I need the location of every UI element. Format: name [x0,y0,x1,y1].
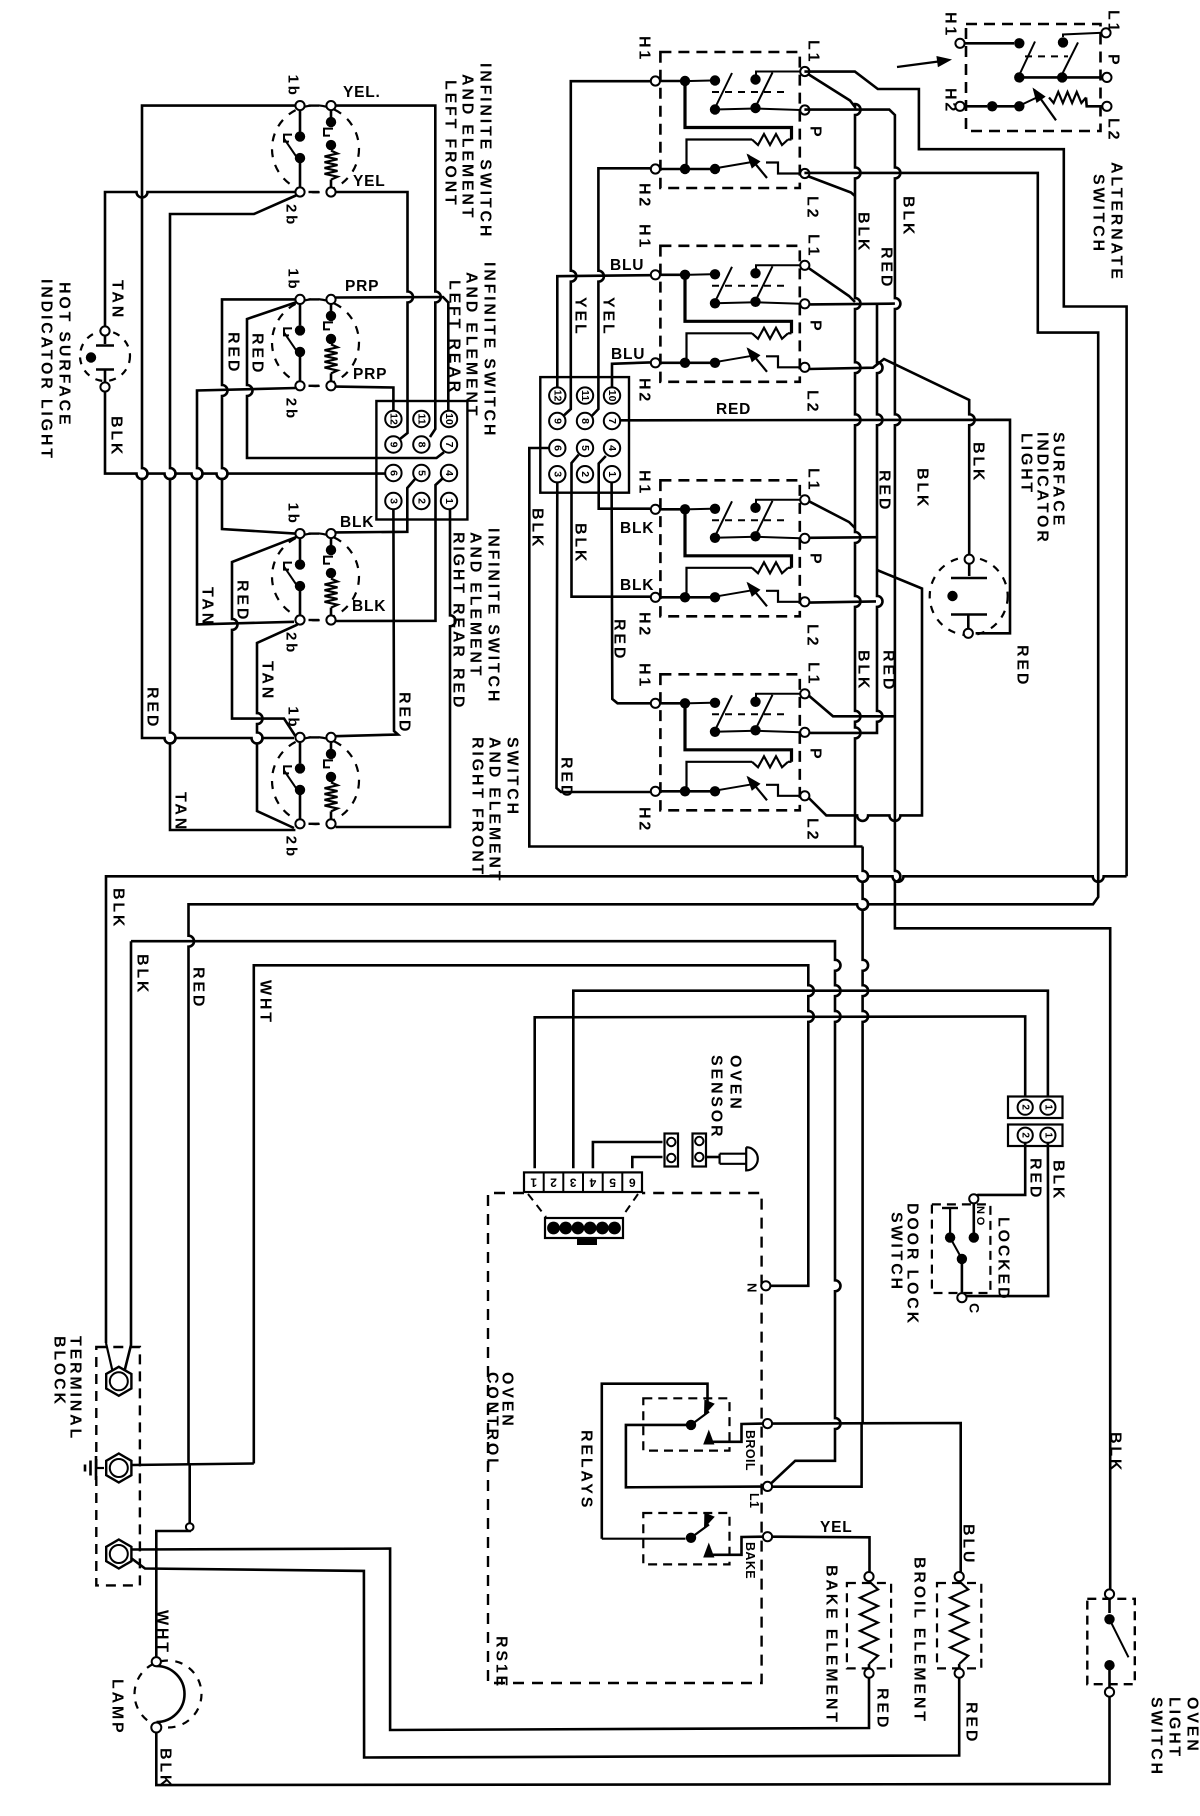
box 4 (right front element) terminal P [800,728,809,737]
door lock plug pin 1 (lower) [1040,1128,1055,1143]
wire oven sensor 3 to door lock plug pin 1 [573,991,1048,1168]
box 4 (right front element) terminal H1 [651,699,660,708]
bake element (dashed box) [847,1583,891,1668]
svg-text:L1: L1 [805,234,822,258]
wire LR-1b to connector pin 7 (RED) [247,302,444,458]
infinite switch left front left pole lead [299,110,302,131]
svg-text:TAN: TAN [109,280,126,320]
box 1 (left front element) contact dot [710,164,720,174]
svg-text:AND ELEMENT: AND ELEMENT [467,532,484,678]
wire oven sensor 1 to door lock plug pin 2 [535,1016,1025,1168]
alternate switch P internal lead [1019,76,1102,79]
box 2 (left rear element) blade coupling (dashed) [712,285,790,287]
svg-text:2: 2 [1020,1132,1031,1138]
wire hot surface light to connector pin 6 (BLK) [105,392,385,480]
surface indicator light dot [947,591,957,601]
broil element terminal [955,1669,964,1678]
ground symbol [96,1467,104,1469]
svg-text:BLK: BLK [134,954,151,995]
wire WHT neutral bus to oven control N [254,965,814,1463]
relay K1 blade arrow [704,1400,715,1416]
infinite switch right front terminal (top right) [326,733,335,742]
box 1 (left front element) pilot resistor [752,134,788,145]
svg-text:H1: H1 [942,12,959,38]
door lock switch C lead [961,1259,964,1293]
bake element terminal [864,1572,873,1581]
wire LF-2b to hot surface light (TAN) [105,192,295,326]
box 4 (right front element) contact dot [710,727,720,737]
wire P2 pin 6 (BLK) to bus [529,448,862,847]
oven sensor plug connector A [665,1134,679,1167]
relay K2 common dot [686,1533,696,1543]
connector P1 pin 9 [385,436,401,452]
infinite switch right rear contact dot [326,545,336,555]
svg-text:LIGHT: LIGHT [1018,433,1035,495]
wire box4 L1 to feed chain [809,696,895,717]
connector P1 (12-pin) outline [376,401,467,520]
box 1 (left front element) internal link [687,140,753,166]
infinite switch left front left pole lead [299,163,302,188]
box 4 (right front element) switch blade 2 [756,695,773,730]
svg-text:H1: H1 [636,470,653,496]
box 3 (right rear element) cycling arrow [747,582,761,597]
connector P1 pin 5 [413,465,429,481]
svg-text:8: 8 [579,418,591,424]
bake element lead [868,1664,871,1669]
svg-text:12: 12 [551,390,563,402]
surface indicator light electrode [951,577,987,579]
terminal block (dashed box) [96,1347,140,1585]
svg-text:BLU: BLU [611,346,645,363]
box 2 (left rear element) terminal P [800,299,809,308]
box 4 (right front element) internal link [788,761,792,763]
infinite switch right rear right pole lead [330,538,333,545]
box 2 (left rear element) terminal L2 [800,363,809,372]
box 3 (right rear element) L1 internal link [756,500,801,504]
box 4 (right front element) cycling blade [748,777,767,800]
infinite switch infinite switch left rear (dashed outline) [272,299,359,386]
svg-text:PRP: PRP [345,278,379,295]
infinite switch left front right pole lead [330,110,333,117]
infinite switch left rear right pole lead [330,373,333,381]
svg-text:BLK: BLK [110,888,127,929]
box 1 (left front element) terminal H2 [651,164,660,173]
alternate switch blade coupling (dashed) [1025,55,1068,57]
infinite switch right front thermal hook [324,760,333,767]
wire pilot chain to box3 P [809,536,877,539]
alternate switch contact dot [1058,37,1068,47]
box 4 (right front element) switch blade 1 [715,695,732,730]
wire lamp to oven light switch (BLK bottom bus) [156,1697,1109,1785]
svg-text:BLK: BLK [1050,1160,1067,1201]
alternate switch contact dot [1014,101,1024,111]
alternate switch blade 2 [1062,42,1078,74]
svg-text:BLU: BLU [960,1524,977,1565]
wire oven sensor 4 to sensor plug [593,1142,663,1168]
connector P2 (12-pin) outline [540,377,629,493]
terminal block lug 1 [106,1367,131,1396]
svg-text:TAN: TAN [172,792,189,832]
oven sensor plug pin [596,1222,609,1235]
alternate switch (dashed box) [966,24,1101,131]
wire LR pilot top to pin 10 (PRP) [336,297,449,410]
svg-text:INDICATOR: INDICATOR [1034,432,1051,545]
oven control (dashed box) [488,1193,762,1683]
door lock plug connector (upper) [1008,1097,1063,1119]
wire box1 L2 diagonal [809,177,855,197]
svg-text:P: P [807,126,824,139]
infinite switch right front right pole lead [330,811,333,819]
box 3 (right rear element) terminal H1 [651,505,660,514]
svg-text:L2: L2 [804,818,821,842]
svg-text:L1: L1 [1105,10,1122,34]
hot surface indicator light electrode [96,344,114,346]
infinite switch right rear left pole lead [299,591,302,616]
wire box2 L2 to surface indicator light (BLK) [809,359,975,555]
box 2 (left rear element) contact dot [750,297,760,307]
svg-text:YEL: YEL [572,297,589,337]
infinite switch left rear terminal (bottom right) [326,381,335,390]
infinite switch left front terminal (bottom right) [326,187,335,196]
svg-text:NO: NO [974,1206,986,1228]
door lock switch NO lead [972,1203,975,1233]
svg-text:DOOR LOCK: DOOR LOCK [904,1203,921,1326]
wire BLK bus to oven control L1 terminal [131,941,841,1483]
surface switch box 4 (right front element) (dashed box) [660,674,799,810]
svg-text:H2: H2 [636,612,653,638]
infinite switch infinite switch right front (dashed outline) [272,737,359,824]
surface switch box 2 (left rear element) (dashed box) [660,246,799,382]
pointer arrow to alternate switch [897,61,946,68]
sensor plug pin [695,1137,703,1145]
box 1 (left front element) internal link [788,138,792,140]
infinite switch right front contact dot [326,772,336,782]
svg-text:6: 6 [551,445,563,451]
alternate switch terminal P [1102,73,1111,82]
infinite switch right front thermal hook [284,766,292,773]
svg-text:RED: RED [716,401,751,418]
box 3 (right rear element) terminal H2 [651,593,660,602]
box 3 (right rear element) cycling blade [748,583,767,606]
svg-text:5: 5 [609,1176,616,1190]
svg-text:BLK: BLK [970,442,987,483]
svg-text:7: 7 [606,418,618,424]
infinite switch left rear left pole lead [299,304,302,325]
svg-text:1: 1 [443,498,455,504]
oven sensor plug pin [559,1222,572,1235]
wire LF-1b to RF-1b (RED) [142,106,295,744]
svg-text:SWITCH: SWITCH [888,1212,905,1292]
infinite switch right rear right pole lead [330,608,333,616]
svg-text:RIGHT REAR: RIGHT REAR [450,532,467,660]
infinite switch left rear thermal hook [284,328,292,335]
infinite switch right front terminal 2b [295,819,304,828]
oven sensor plug tab [577,1238,597,1245]
svg-text:LIGHT: LIGHT [1166,1697,1183,1759]
oven sensor bulb [720,1147,758,1170]
box 1 (left front element) H2 internal lead [660,168,680,171]
oven sensor connector divider [621,1172,623,1192]
connector P1 pin 2 [413,493,429,509]
oven light switch lead [1108,1670,1111,1688]
box 3 (right rear element) internal link [715,537,756,538]
svg-text:AND ELEMENT: AND ELEMENT [486,737,503,883]
svg-text:7: 7 [443,442,455,448]
infinite switch left rear thermal hook [324,322,333,329]
box 1 (left front element) internal link [689,168,711,171]
box 2 (left rear element) terminal H1 [651,270,660,279]
oven light switch lead [1108,1599,1111,1613]
wire plug pin 1 to door lock C (BLK) [967,1143,1049,1296]
svg-text:RED: RED [190,967,207,1009]
wire P2 pin 5 to box3 H2 (BLK) [572,455,651,597]
svg-text:INFINITE SWITCH: INFINITE SWITCH [477,63,494,239]
box 1 (left front element) cycling blade [748,155,767,178]
wire box2 L1 diagonal [809,268,855,302]
svg-text:BLK: BLK [1107,1432,1124,1473]
svg-text:SWITCH: SWITCH [1148,1697,1165,1777]
box 2 (left rear element) internal link [715,302,756,303]
svg-text:L2: L2 [804,624,821,648]
connector P2 pin 2 [577,466,593,482]
alternate switch internal link [996,105,1015,108]
svg-text:WHT: WHT [257,980,274,1025]
lamp (dashed outline) [135,1661,202,1728]
oven sensor connector divider [602,1172,604,1192]
wire box1 L1 feed (L1 line) [804,72,1126,877]
svg-text:TAN: TAN [199,587,216,627]
box 2 (left rear element) contact dot [710,298,720,308]
infinite switch infinite switch left front (dashed outline) [272,105,359,192]
svg-text:12: 12 [387,413,399,425]
svg-text:P: P [807,748,824,761]
svg-text:H2: H2 [942,88,959,114]
box 2 (left rear element) internal link [788,332,792,334]
svg-text:BAKE: BAKE [743,1542,757,1579]
surface indicator light electrode lead [967,615,970,629]
wire L2 line (RED) to neutral junction [189,173,1099,1464]
box 2 (left rear element) H2 internal lead [660,361,680,364]
lamp terminal [151,1723,161,1733]
box 2 (left rear element) pilot resistor [752,328,788,339]
wire lamp to neutral (WHT) [156,1464,189,1658]
wire bus BLK to terminal lug 1 [106,1343,113,1371]
relay K1 NO arrow [703,1430,714,1445]
box 3 (right rear element) switch blade 1 [715,501,732,536]
box 3 (right rear element) internal link [685,514,792,568]
svg-text:H2: H2 [636,807,653,833]
terminal block lug 3 [106,1540,131,1569]
infinite switch left front terminal (top right) [326,101,335,110]
box 3 (right rear element) internal link [690,508,711,511]
infinite switch left front coupling dash top [309,104,320,106]
bake element terminal [864,1669,873,1678]
box 2 (left rear element) L1 internal link [756,265,801,269]
svg-text:SENSOR: SENSOR [708,1055,725,1139]
box 1 (left front element) blade coupling (dashed) [712,91,790,93]
infinite switch left front thermal hook [284,135,292,142]
svg-text:8: 8 [415,442,427,448]
svg-text:L1: L1 [805,662,822,686]
box 1 (left front element) junction [680,164,690,174]
box 4 (right front element) contact dot [710,786,720,796]
svg-text:RED: RED [963,1702,980,1744]
svg-text:P: P [807,320,824,333]
wire P2 pin 1 to box4 H1 (RED) [612,482,650,703]
wire terminal lug 3 to broil element (RED) [131,1558,959,1758]
svg-text:L2: L2 [804,196,821,220]
alternate switch internal link [1023,96,1041,105]
alternate switch cycling arrow [1033,88,1046,104]
svg-text:RED: RED [880,650,897,692]
sensor plug pin [667,1154,675,1162]
box 1 (left front element) internal link [690,80,711,83]
infinite switch right front left pole lead [299,742,302,763]
oven sensor connector strip [524,1172,642,1192]
infinite switch right front terminal (bottom right) [326,819,335,828]
alternate switch terminal H2 [955,102,964,111]
wire RR pilot top to pin 5 (BLK) [336,478,416,532]
svg-text:LOCKED: LOCKED [995,1217,1012,1301]
svg-text:RED: RED [450,668,467,710]
wire LR-2b to RR-2b (TAN) [197,388,295,624]
box 3 (right rear element) pilot resistor [752,562,788,573]
lamp filament [157,1666,185,1722]
svg-text:1: 1 [606,471,618,477]
alternate switch resistor [1049,92,1086,103]
svg-text:YEL: YEL [820,1519,853,1536]
oven sensor connector divider [543,1172,545,1192]
infinite switch left front right pole lead [330,180,333,188]
wire box1 P feed down to oven light switch (BLK) [804,110,1110,1590]
hot surface indicator light terminal [100,326,109,335]
svg-text:H1: H1 [636,224,653,250]
box 1 (left front element) internal step link [766,163,801,174]
svg-text:3: 3 [551,471,563,477]
oven control terminal N [761,1281,770,1290]
box 2 (left rear element) switch blade 1 [715,267,732,302]
infinite switch right front coupling dash bottom [309,823,320,825]
hot surface indicator light terminal [100,382,109,391]
box 4 (right front element) internal link [687,762,753,788]
svg-text:11: 11 [579,390,591,401]
infinite switch right front contact dot [295,785,305,795]
svg-text:N: N [745,1283,760,1293]
box 1 (left front element) cycling arrow [747,154,761,169]
box 2 (left rear element) internal step link [766,356,801,367]
surface switch box 1 (left front element) (dashed box) [660,52,799,188]
box 4 (right front element) H1 internal lead [660,702,680,705]
connector P1 pin 12 [385,411,401,427]
surface switch box 3 (right rear element) (dashed box) [660,480,799,616]
relay K2 blade arrow [704,1513,715,1529]
infinite switch right front terminal 1b [295,733,304,742]
svg-text:4: 4 [606,445,618,451]
wire P2 pin 3 to box4 H2 (RED) [557,482,651,792]
infinite switch infinite switch right rear (dashed outline) [272,533,359,620]
connector P2 pin 9 [549,413,565,429]
infinite switch left rear contact dot [295,325,305,335]
svg-text:2: 2 [550,1176,557,1190]
box 4 (right front element) internal link [689,790,711,793]
oven light switch blade [1110,1619,1129,1657]
box 3 (right rear element) H2 internal lead [660,596,680,599]
svg-text:RS1E: RS1E [493,1636,510,1689]
oven light switch contact dot [1104,1614,1114,1624]
box 1 (left front element) P internal lead [756,109,801,111]
svg-text:BLK: BLK [855,650,872,691]
box 1 (left front element) switch blade 2 [756,73,773,108]
connector P2 pin 3 [549,466,565,482]
box 1 (left front element) terminal L2 [800,169,809,178]
svg-text:2: 2 [579,471,591,477]
bake element resistor [860,1581,878,1664]
infinite switch right rear terminal (bottom right) [326,615,335,624]
svg-text:H2: H2 [636,183,653,209]
pointer arrowhead [936,56,952,67]
connector P1 pin 6 [385,465,401,481]
infinite switch right front right pole lead [330,742,333,749]
svg-text:H1: H1 [636,36,653,62]
svg-text:BLK: BLK [352,598,386,615]
infinite switch right rear coupling dash bottom [309,619,320,621]
connector P2 pin 7 [604,413,620,429]
hot surface indicator light electrode lead [104,370,107,383]
connector P2 pin 10 [604,387,620,403]
alternate switch terminal L2 [1102,102,1111,111]
infinite switch right rear contact dot [295,559,305,569]
svg-text:INFINITE SWITCH: INFINITE SWITCH [481,262,498,438]
box 4 (right front element) terminal L1 [800,689,809,698]
svg-text:6: 6 [387,470,399,476]
svg-text:CONTROL: CONTROL [484,1372,501,1471]
box 1 (left front element) H1 internal lead [660,80,680,83]
oven light switch terminal [1105,1688,1114,1697]
connector P2 pin 5 [577,440,593,456]
svg-text:BLK: BLK [108,416,125,457]
wire BAKE to bake element (YEL) [772,1537,869,1572]
wire BROIL to broil element (BLU) [772,1423,961,1572]
infinite switch right rear contact dot [326,568,336,578]
svg-text:L1: L1 [805,40,822,64]
alternate switch contact dot [987,101,997,111]
svg-text:1b: 1b [285,268,302,291]
svg-text:RED: RED [1027,1158,1044,1200]
box 4 (right front element) H2 internal lead [660,790,680,793]
svg-text:RED: RED [876,470,893,512]
svg-text:2: 2 [1020,1104,1031,1110]
wire P2 pin 7 to surface indicator light (RED) [620,420,1010,634]
surface indicator light electrode [951,613,987,615]
svg-text:BLOCK: BLOCK [51,1336,68,1407]
alternate switch internal link [1086,98,1102,107]
infinite switch right front coupling dash top [309,736,320,738]
svg-text:P: P [1105,54,1122,67]
box 3 (right rear element) internal link [687,568,753,594]
oven control terminal L1 [763,1482,772,1491]
relay K2 blade [691,1525,709,1538]
box 4 (right front element) contact dot [750,697,760,707]
oven sensor plug pin block [545,1218,623,1238]
connector P2 pin 4 [604,440,620,456]
box 1 (left front element) junction [680,76,690,86]
oven sensor plug (dashed taper) [528,1194,546,1217]
box 3 (right rear element) P internal lead [756,537,801,539]
infinite switch left rear terminal 2b [295,381,304,390]
oven sensor plug pin [572,1222,585,1235]
surface indicator light electrode lead [968,564,971,576]
box 4 (right front element) blade coupling (dashed) [712,713,790,715]
